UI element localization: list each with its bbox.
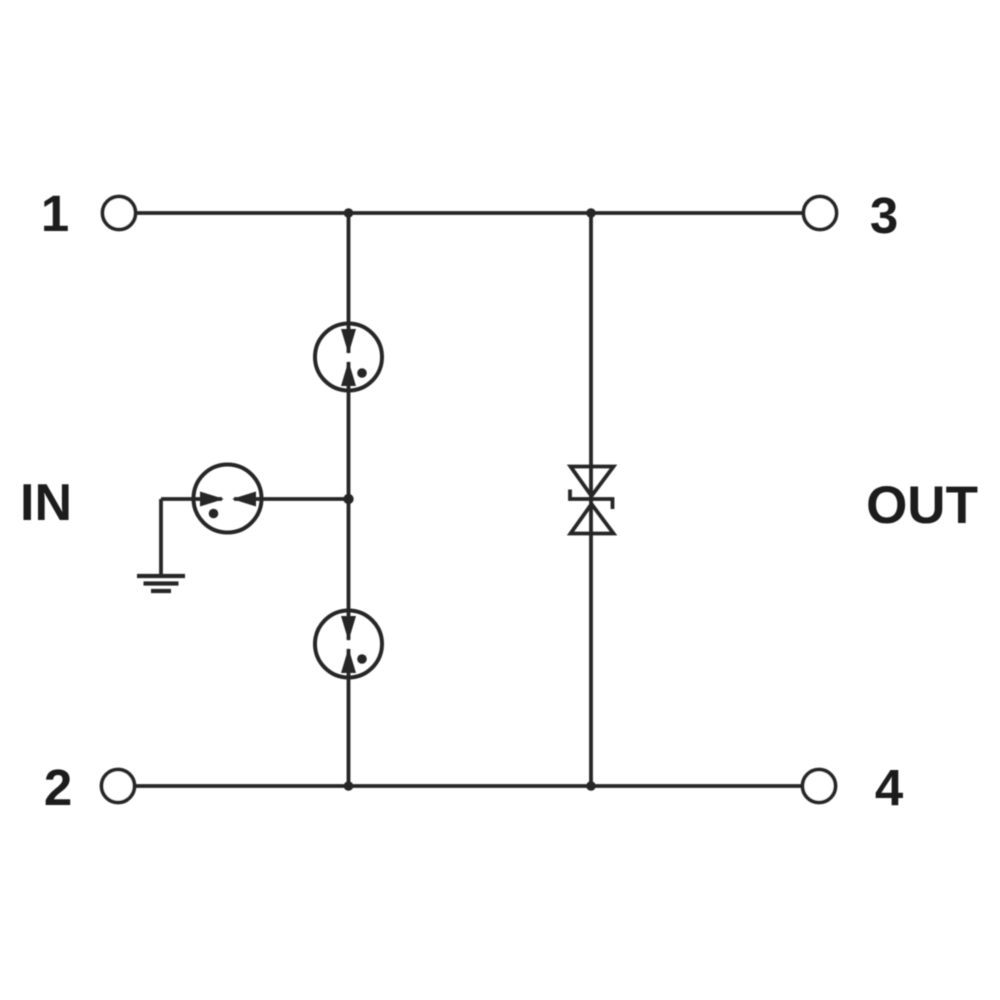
svg-text:1: 1 (41, 185, 69, 242)
svg-text:4: 4 (875, 759, 904, 816)
svg-text:IN: IN (20, 474, 72, 532)
svg-text:3: 3 (870, 187, 898, 244)
svg-text:2: 2 (44, 759, 72, 816)
svg-text:OUT: OUT (866, 476, 978, 535)
